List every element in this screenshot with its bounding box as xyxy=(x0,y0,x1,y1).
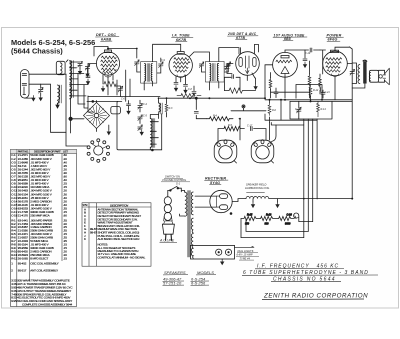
resistor R-2 bus xyxy=(177,94,201,98)
wire HV plate leads xyxy=(195,196,217,207)
svg-text:OSC COIL ASSEMBLY: OSC COIL ASSEMBLY xyxy=(30,262,58,266)
wire avc return xyxy=(271,123,304,126)
wire long vertical bus A xyxy=(303,119,305,238)
note: models list xyxy=(191,270,217,286)
cap C-18 to ground xyxy=(303,50,307,67)
wire junction leads xyxy=(70,98,72,133)
trimmer C-8 primary xyxy=(135,60,140,72)
AC cord twisted pair xyxy=(164,197,173,221)
note: speakers list xyxy=(163,270,189,286)
ground taps on B+ line xyxy=(251,199,254,208)
wire L4 taps xyxy=(150,122,158,150)
wire antenna mid lead to bus xyxy=(29,84,66,132)
cap C-20 xyxy=(274,88,278,98)
wire T1 leads bottom xyxy=(144,82,152,91)
wire antenna bottom lead xyxy=(25,97,34,99)
trimmer C-9 secondary xyxy=(157,58,163,73)
wire antenna top lead xyxy=(29,73,66,75)
resistor R-4 row xyxy=(207,117,241,121)
wire T1 sec top to V2 cap xyxy=(153,44,181,61)
svg-text:R-15: R-15 xyxy=(247,214,253,217)
cap C-17 xyxy=(251,127,267,140)
svg-text:57-151-10: 57-151-10 xyxy=(163,281,182,286)
ground antenna xyxy=(32,96,35,101)
svg-text:C-4: C-4 xyxy=(143,103,148,106)
svg-text:R-12: R-12 xyxy=(11,256,17,260)
wire L5 leads xyxy=(150,98,158,118)
wave trap coil in shield xyxy=(56,60,68,75)
output transformer T4 xyxy=(352,60,367,83)
cap C-40 xyxy=(228,75,240,79)
svg-text:ANT COIL ASSEMBLY: ANT COIL ASSEMBLY xyxy=(30,268,58,272)
resistor R-3 xyxy=(165,98,168,117)
ground trimmer bank xyxy=(140,130,143,135)
labels divider xyxy=(245,214,292,226)
label V4 xyxy=(273,33,307,41)
wire T2 bottom leads xyxy=(209,82,218,90)
label V6 xyxy=(205,177,229,185)
tube V4 1ST AUDIO 6B5 xyxy=(273,52,298,77)
wire rectifier output xyxy=(232,199,246,202)
svg-text:5Y4G: 5Y4G xyxy=(210,181,220,185)
wire V1 top cap riser xyxy=(94,47,108,57)
wire T2 sec top to V3 xyxy=(219,48,239,62)
svg-text:250 MMF MICA: 250 MMF MICA xyxy=(30,214,49,218)
wire V5 grid xyxy=(320,50,326,74)
note: dial lights label xyxy=(236,249,259,260)
resistor R-9 xyxy=(269,78,272,90)
svg-text:SWITCH ON: SWITCH ON xyxy=(165,175,180,179)
svg-text:TYPE 44: TYPE 44 xyxy=(240,256,251,260)
resistor R-6 xyxy=(268,100,271,123)
tube V2 IF 6K7 xyxy=(169,52,192,78)
trimmer C-4 xyxy=(138,103,143,112)
speaker field network box xyxy=(290,101,332,119)
tie point xyxy=(231,105,266,111)
IF transformer T2 xyxy=(206,62,225,83)
node junction bus xyxy=(92,101,94,103)
cap C-10 xyxy=(127,101,131,115)
cap C-6 xyxy=(86,76,90,78)
wire S1A stem xyxy=(96,101,98,132)
svg-text:6-8V-.15 AMP: 6-8V-.15 AMP xyxy=(237,253,253,257)
svg-text:R-14: R-14 xyxy=(321,108,327,111)
svg-text:CONTROL AT MINIMUM - NO SIGNAL: CONTROL AT MINIMUM - NO SIGNAL xyxy=(98,255,146,259)
antenna loop xyxy=(20,70,29,99)
ground below C-13 xyxy=(184,88,187,93)
svg-text:R-4: R-4 xyxy=(213,115,218,118)
AC plug xyxy=(162,221,174,240)
divider resistor chain xyxy=(241,216,294,220)
wire plate bus down right xyxy=(349,47,352,199)
resistor R-11 xyxy=(319,74,322,94)
svg-text:S-1: S-1 xyxy=(176,181,181,185)
svg-text:C-5: C-5 xyxy=(143,115,148,118)
tube V5 POWER 6F6 xyxy=(323,50,348,76)
label V1 xyxy=(96,33,120,41)
wire cathode link xyxy=(271,91,310,93)
trimmer C-16 avc xyxy=(225,64,233,74)
ground below C-2 xyxy=(78,69,81,74)
svg-text:8000: 8000 xyxy=(285,222,291,225)
wire coil taps to S1A xyxy=(78,73,94,112)
svg-text:C-26: C-26 xyxy=(287,214,293,217)
resistor R-12 xyxy=(296,85,312,102)
wire curled arrow tap xyxy=(294,213,313,222)
svg-text:C-9: C-9 xyxy=(161,59,166,62)
wire riser T2 left xyxy=(196,98,206,119)
resistor R-10 xyxy=(308,74,311,86)
svg-text:6K7B: 6K7B xyxy=(176,38,186,42)
svg-text:C-8: C-8 xyxy=(188,88,193,91)
svg-text:C-25: C-25 xyxy=(295,108,301,111)
svg-text:6T7B: 6T7B xyxy=(236,36,245,40)
note: A.C. LINE label xyxy=(159,239,177,243)
svg-text:A.C.LINE: A.C.LINE xyxy=(159,239,175,243)
wire transformer bottom lead xyxy=(352,84,365,89)
wire divider left drops and closures xyxy=(241,219,308,238)
wire V1 cathode drop xyxy=(103,75,113,85)
svg-text:R-6: R-6 xyxy=(272,109,277,112)
wire bus right lower xyxy=(290,100,352,102)
tube V3 2ND DET-AVC 6T7 xyxy=(236,52,260,76)
wire lead to tone can xyxy=(272,125,277,142)
resistor R-7 xyxy=(229,88,242,93)
trimmer C-15 xyxy=(224,62,230,72)
wire V2 cathode/screen drops xyxy=(176,75,186,84)
svg-text:MODELS: MODELS xyxy=(197,270,214,275)
ground below C-3 xyxy=(86,71,89,76)
svg-text:6B5: 6B5 xyxy=(284,37,291,41)
svg-text:(5644 Chassis): (5644 Chassis) xyxy=(11,46,63,55)
wire V5 plate to transformer xyxy=(335,47,352,100)
label V5 xyxy=(326,34,344,42)
svg-text:R-5: R-5 xyxy=(228,124,233,127)
wave trap coil L3 with slug xyxy=(56,85,61,108)
antenna coil stack L2 xyxy=(70,61,74,99)
oscillator coil L4 xyxy=(150,119,155,148)
ground below C-12 xyxy=(174,86,177,91)
svg-text:C-21: C-21 xyxy=(325,91,331,94)
wire coil taps xyxy=(70,62,89,96)
svg-text:21-4170: 21-4170 xyxy=(18,214,28,218)
cap C-19 coupling xyxy=(310,48,320,52)
junction dot riser xyxy=(195,97,197,99)
wire V4 cathode resistor leads xyxy=(271,61,310,98)
wire R-4 to vol can xyxy=(239,119,241,140)
wire detector return xyxy=(271,119,317,121)
svg-text:95-517: 95-517 xyxy=(18,268,27,272)
wire V2 plate to T2 xyxy=(190,52,210,62)
wire node dot to S1A xyxy=(71,118,84,120)
trimmer C-1 xyxy=(39,84,44,95)
tone control VR2 xyxy=(251,140,274,163)
trimmer C-7 xyxy=(138,125,143,131)
wire vol can terminals xyxy=(269,123,271,141)
wire avc feed vertical xyxy=(280,100,282,120)
wire left riser xyxy=(66,74,88,146)
small coil L5 xyxy=(159,103,163,114)
ground below dial lights xyxy=(221,259,224,264)
svg-text:300: 300 xyxy=(265,222,270,225)
wire left return loop xyxy=(87,101,162,149)
svg-text:K: K xyxy=(84,237,86,241)
svg-text:.15: .15 xyxy=(63,256,67,260)
trimmer C-5 xyxy=(138,115,143,124)
speaker SP xyxy=(369,68,389,85)
wire V3 diode top jumpers xyxy=(241,45,259,54)
wire transformer primary bottom xyxy=(180,191,185,217)
ground below C-6 xyxy=(86,79,89,84)
svg-text:99-87: 99-87 xyxy=(90,231,97,235)
parts list table (capacitors/resistors) xyxy=(11,149,77,306)
power transformer T3 xyxy=(185,191,193,259)
wire bus left xyxy=(88,96,160,98)
ground below C-1 xyxy=(39,95,42,100)
node dot junction xyxy=(69,117,72,120)
band switch S1B wafer xyxy=(87,139,109,163)
trimmer C-14 xyxy=(199,62,205,72)
label V3 xyxy=(227,32,258,40)
wire top v3 drop xyxy=(265,114,271,120)
svg-text:95-452: 95-452 xyxy=(18,262,27,266)
svg-text:DET.- OSC: DET.- OSC xyxy=(96,33,116,37)
svg-text:.60: .60 xyxy=(63,214,67,218)
label V2 xyxy=(172,34,194,42)
svg-text:6F6G: 6F6G xyxy=(328,38,338,42)
wire V1 bottom to osc section xyxy=(108,80,117,95)
note: Zenith Radio Corporation xyxy=(262,293,368,300)
band switch S1A wafer xyxy=(84,103,110,129)
trimmer C-2 xyxy=(78,61,83,69)
cap C-11 xyxy=(194,112,198,114)
svg-text:VOLUME CONTROL: VOLUME CONTROL xyxy=(162,178,187,182)
svg-text:C-19: C-19 xyxy=(305,52,311,55)
wire switch to cord xyxy=(168,190,170,197)
wire bus mid xyxy=(160,97,265,99)
volume control VR1 xyxy=(214,140,237,163)
cap C-13 xyxy=(184,85,188,87)
wire V3 cathode xyxy=(247,73,255,81)
note: speaker field / humbucking coil label xyxy=(245,183,270,191)
svg-text:COMPLETE CHASSIS ASSEMBLY 5644: COMPLETE CHASSIS ASSEMBLY 5644 xyxy=(22,303,73,307)
wire V4 plate top xyxy=(285,50,309,52)
svg-text:SPEAKERS: SPEAKERS xyxy=(164,270,186,275)
svg-text:R-3: R-3 xyxy=(169,107,174,110)
wire grid risers xyxy=(126,70,130,101)
shield box beside switch xyxy=(111,107,121,114)
trimmer C-3 xyxy=(85,64,90,71)
wire V1 plate to T1 xyxy=(108,49,137,59)
svg-text:8 MFD ELECT: 8 MFD ELECT xyxy=(30,256,48,260)
wire switch to transformer xyxy=(179,188,182,192)
component value labels xyxy=(121,52,330,128)
note: switch on volume control xyxy=(161,175,190,186)
svg-text:6-S-256: 6-S-256 xyxy=(191,281,206,286)
wire long vertical bus C xyxy=(312,119,314,222)
wire bus right xyxy=(265,99,352,101)
cap C-12 xyxy=(174,83,178,85)
ground V1 cathode xyxy=(101,86,104,91)
svg-text:ZENITH RADIO CORPORATION: ZENITH RADIO CORPORATION xyxy=(263,293,368,300)
trimmer bank line xyxy=(139,100,141,104)
svg-text:C-17: C-17 xyxy=(247,125,253,128)
trimmer C-41 osc pad xyxy=(116,86,123,97)
svg-text:26-1065: 26-1065 xyxy=(18,256,28,260)
power switch S-1 xyxy=(170,186,179,191)
wire R-5 left drop xyxy=(217,129,219,142)
ground V3 xyxy=(254,84,257,89)
resistor R cathode xyxy=(104,81,116,86)
svg-text:6A8B: 6A8B xyxy=(101,37,111,41)
svg-text:HUMBUCKING COIL: HUMBUCKING COIL xyxy=(245,186,270,190)
note: IF frequency text block xyxy=(242,264,378,283)
cap C-35 series xyxy=(192,86,196,98)
svg-text:AUX BAND OSCIL SECTION ADJ: AUX BAND OSCIL SECTION ADJ xyxy=(98,237,140,241)
svg-text:R-12: R-12 xyxy=(313,89,319,92)
wire long vertical bus D xyxy=(316,119,318,199)
IF transformer T1 xyxy=(141,62,157,83)
tube V6 rectifier 5Y4G xyxy=(210,190,232,214)
svg-text:C-18: C-18 xyxy=(11,214,17,218)
ground S1A xyxy=(107,129,110,134)
svg-text:R-16: R-16 xyxy=(266,214,272,217)
resistor R-5 row xyxy=(218,126,244,130)
cap C-21 xyxy=(311,85,323,100)
wire grid left xyxy=(88,64,96,76)
wire B+ line to right xyxy=(269,198,352,200)
cap C-22 xyxy=(321,90,325,98)
tube V1 DET-OSC 6A8 xyxy=(96,50,119,77)
wire long vertical bus B xyxy=(307,119,309,231)
trimmer C-23 tone xyxy=(350,69,355,75)
svg-text:SPEAKER FIELD: SPEAKER FIELD xyxy=(246,183,266,187)
node junction L4 bottom xyxy=(152,149,154,151)
humbucking coil field xyxy=(246,193,269,199)
wire dial light top lead xyxy=(235,246,255,247)
wire V4 grid left xyxy=(265,65,273,98)
svg-text:DIAL LIGHTS: DIAL LIGHTS xyxy=(238,249,254,253)
wire R-7 leads xyxy=(224,77,255,90)
title: Models 6-S-254, 6-S-256 (5644 Chassis) xyxy=(11,38,95,55)
socket voltage / description table (center) xyxy=(82,203,151,266)
dial lights box DL xyxy=(191,245,235,259)
svg-text:C-6: C-6 xyxy=(121,98,126,101)
